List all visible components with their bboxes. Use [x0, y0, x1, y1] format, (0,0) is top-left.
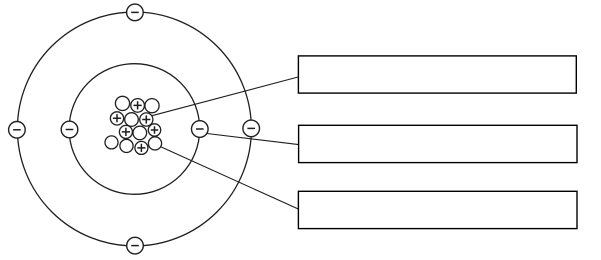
electron e6 right of inner shell [192, 121, 209, 138]
neutron n6 [120, 139, 133, 152]
neutron n1 [115, 96, 129, 110]
pointer line to bottom label box [160, 146, 298, 209]
top label box [298, 56, 576, 93]
neutron n7 [148, 137, 161, 150]
electron e3 left of outer shell [9, 122, 26, 139]
bottom label box [298, 191, 577, 228]
electron e1 top of outer shell [127, 4, 144, 21]
proton p3 [140, 113, 153, 126]
inner electron shell [69, 64, 200, 195]
pointer line to top label box [152, 77, 299, 116]
proton p5 [148, 124, 160, 136]
neutron n3 [125, 113, 139, 127]
electron e2 bottom of outer shell [127, 237, 144, 254]
neutron n4 [133, 126, 147, 140]
electron e4 right of outer shell [243, 120, 260, 137]
proton p1 [131, 99, 145, 113]
pointer line to middle label box [207, 134, 299, 145]
outer electron shell [17, 12, 251, 246]
proton p6 [135, 141, 148, 154]
neutron n2 [145, 99, 159, 113]
electron e5 left of inner shell [61, 121, 78, 138]
proton p4 [119, 125, 132, 138]
middle label box [299, 125, 577, 162]
proton p2 [110, 112, 123, 125]
neutron n5 [105, 136, 118, 149]
